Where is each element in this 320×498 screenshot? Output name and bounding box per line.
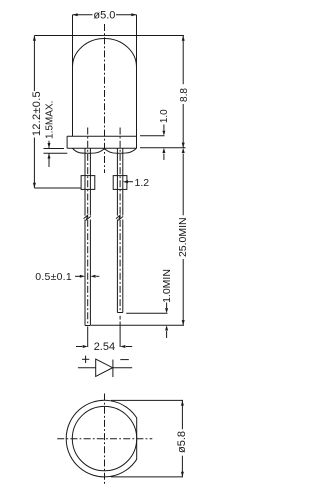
svg-text:1.2: 1.2 (135, 177, 150, 189)
arrow 25.0MIN top (182, 148, 185, 153)
epoxy meniscus under flange (73, 148, 137, 153)
arrow 1.5MAX up (48, 153, 51, 158)
right lead standoff tab (113, 176, 127, 190)
arrow 8.8 bottom (182, 143, 185, 148)
arrow 1.0MIN down (165, 308, 168, 313)
LED body left side + dim ext (72, 15, 74, 137)
bottom view horizontal centerline (57, 438, 152, 440)
ext line flange bottom left (44, 148, 65, 150)
ext line tab bottom (12.2) (34, 187, 80, 189)
dim 1.0MIN upper tail (166, 303, 168, 309)
ext line circle top (5.8) (111, 399, 183, 401)
right lead break mark (116, 215, 123, 220)
arrow 5.8 top (181, 400, 184, 405)
arrow phi5.0 left (73, 13, 78, 16)
polarity minus sign (120, 359, 129, 361)
svg-text:0.5±0.1: 0.5±0.1 (35, 271, 72, 283)
left lead centerline (87, 128, 89, 326)
arrow 1.5MAX down (48, 143, 51, 148)
flange top line (67, 135, 136, 137)
leader 1.2 (128, 181, 134, 183)
diode symbol anode lead (78, 367, 96, 369)
dim 25.0MIN line lower (182, 259, 184, 325)
arrow 8.8 top (182, 36, 185, 41)
dim 0.5 left-point arrow (90, 275, 95, 278)
ext line circle bottom (5.8) (111, 476, 183, 478)
arrow 5.8 bottom (181, 472, 184, 477)
left lead bottom end (85, 325, 90, 327)
dim 0.5 right-point arrow (75, 275, 81, 277)
dim 12.2 line lower (33, 138, 35, 189)
dim 12.2 line upper (33, 36, 35, 92)
dim 2.54 right arrow (120, 345, 125, 348)
left lead break mark (84, 215, 91, 220)
ext line meniscus bottom left (44, 152, 68, 154)
svg-text:25.0MIN: 25.0MIN (177, 217, 189, 257)
arrow 25.0MIN bottom (182, 320, 185, 325)
LED body dome (73, 39, 137, 67)
svg-text:1.0MIN: 1.0MIN (161, 269, 173, 303)
svg-text:8.8: 8.8 (179, 88, 190, 102)
polarity plus sign (82, 358, 89, 360)
arrow 1.0MIN up (165, 325, 168, 330)
arrow 1.0 down (162, 131, 165, 136)
dim 8.8 line lower (182, 104, 184, 148)
dim 2.54 left arrow (76, 346, 82, 348)
diode cathode lead (113, 367, 132, 369)
svg-text:2.54: 2.54 (94, 341, 115, 353)
dim 1.0MIN lower tail (166, 331, 168, 338)
svg-text:1.0: 1.0 (159, 109, 170, 123)
bottom view outer circle with flat (66, 400, 137, 477)
dim 1.5MAX lower arrow tail (48, 153, 50, 167)
bottom view vertical centerline (104, 394, 106, 486)
svg-text:1.5MAX.: 1.5MAX. (44, 101, 55, 139)
dim 5.8 line upper (181, 400, 183, 429)
ext line right lead end (1.0MIN top) (126, 312, 167, 314)
left lead standoff tab (81, 176, 95, 190)
left lead edges (84, 148, 86, 215)
right lead bottom end (117, 312, 122, 314)
dim phi5.0 line left segment (73, 14, 93, 16)
right lead centerline (119, 128, 121, 313)
arrow 12.2 top (33, 36, 36, 41)
svg-text:ø5.0: ø5.0 (93, 9, 115, 21)
flange bottom line (67, 147, 136, 149)
svg-text:12.2±0.5: 12.2±0.5 (31, 91, 43, 136)
right lead edges (116, 148, 118, 215)
dim 25.0MIN line upper (182, 154, 184, 216)
bottom view inner circle (72, 406, 136, 470)
dim 1.5MAX upper arrow tail (48, 141, 50, 148)
dim 1.0 lower tail (163, 154, 165, 161)
arrow 12.2 bottom (33, 183, 36, 188)
ext line flange top right (1.0) (140, 135, 165, 137)
ext line left lead end (25.0MIN bottom) (91, 324, 184, 326)
main centerline (body axis) (104, 24, 106, 173)
dim 1.0 upper tail (163, 125, 165, 131)
dim phi5.0 line right segment (116, 14, 137, 16)
apex extension line (34, 35, 184, 37)
diode cathode bar (112, 360, 114, 378)
dim 5.8 line lower (181, 456, 183, 477)
ext line flange bottom right (140, 147, 186, 149)
LED body right side + flange flat right edge + dim ext (136, 15, 138, 149)
diode triangle (96, 359, 113, 376)
arrow 1.0 up (162, 148, 165, 153)
arrow phi5.0 right (131, 13, 136, 16)
dim 8.8 line upper (182, 36, 184, 85)
svg-text:ø5.8: ø5.8 (176, 431, 188, 453)
flange left edge (66, 136, 68, 148)
